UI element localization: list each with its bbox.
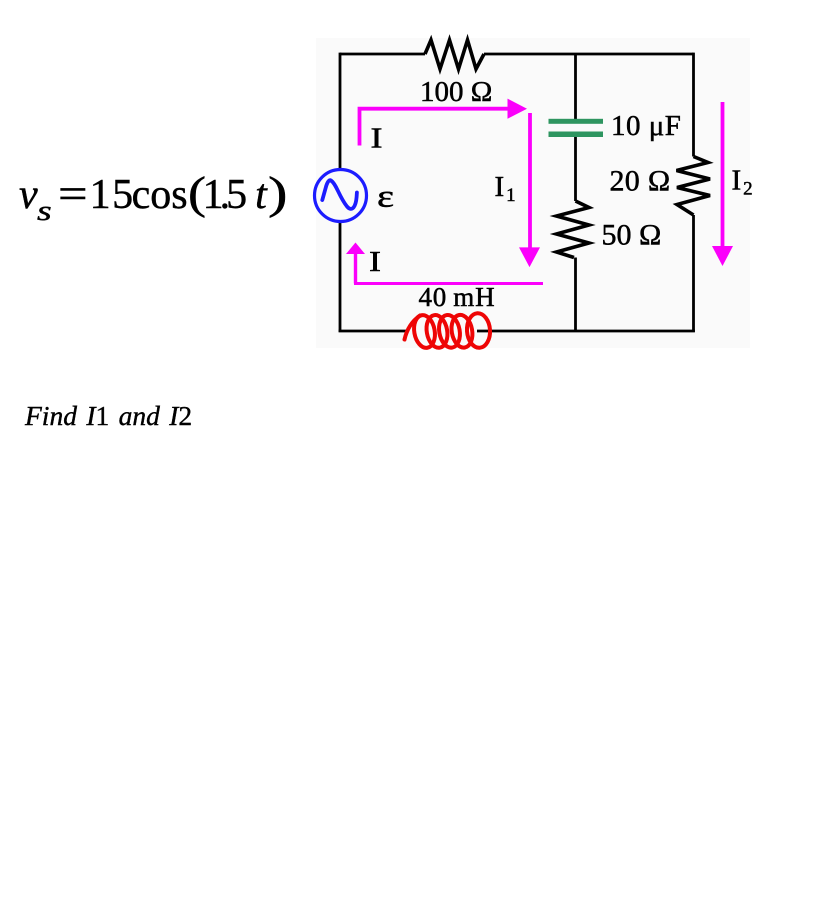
svg-text:10 μF: 10 μF <box>611 110 681 142</box>
svg-text:I: I <box>371 123 383 155</box>
svg-text:20 Ω: 20 Ω <box>610 165 671 198</box>
svg-text:40 mH: 40 mH <box>419 282 496 312</box>
svg-text:50 Ω: 50 Ω <box>602 219 662 252</box>
svg-text:ε: ε <box>377 178 394 214</box>
svg-text:100 Ω: 100 Ω <box>420 76 492 108</box>
svg-text:I: I <box>369 246 381 278</box>
